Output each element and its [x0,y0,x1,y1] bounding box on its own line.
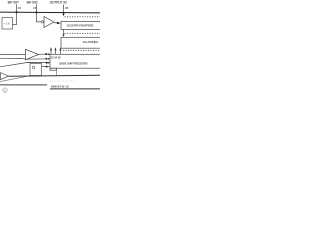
wire comparator output to SR [39,53,50,55]
node dot on inverter output [57,22,59,24]
shift register left notch [50,68,57,70]
svg-text:MM14543-13: MM14543-13 [51,85,69,89]
svg-text:33 34 35: 33 34 35 [51,55,62,59]
wire comparator input [0,54,26,56]
wire osc box to SR [42,66,50,68]
svg-text:33 LATCHES: 33 LATCHES [83,40,98,44]
arrow SR to latches 2 [55,50,57,54]
dashed ellipsis outputs row [65,16,101,18]
wire pin stub BP OUT [16,4,18,24]
svg-text:OUTPUT 33: OUTPUT 33 [50,1,67,5]
wire top bus [0,11,100,14]
node junction dot 2 [35,11,37,13]
faint dashed row bottom [50,80,75,82]
dashed ellipsis between buffers and latches [65,32,101,34]
box 33 latches [61,37,102,48]
wire clock to SR (diagonal) [0,63,50,67]
wire inverter output [54,22,61,25]
svg-text:21: 21 [33,6,37,10]
svg-text:÷16: ÷16 [3,22,10,26]
divider box ÷16 [2,18,13,30]
wire to divider box [12,24,17,26]
bottom rule right [50,88,100,90]
node junction dot 1 [15,11,17,13]
arrowhead into buffers row [62,14,64,16]
svg-text:BP. OUT: BP. OUT [8,1,19,5]
comparator triangle C [26,49,39,59]
box 33-bit shift register [50,54,102,68]
inverter U1 [44,17,54,28]
svg-text:BP. OSC: BP. OSC [27,1,39,5]
svg-text:33-BIT SHIFT REGISTER: 33-BIT SHIFT REGISTER [59,62,88,66]
arrow SR to latches 3 [60,50,62,54]
svg-text:28: 28 [65,6,69,10]
wire data buffer output (long) [9,74,100,77]
wire pin stub OSC [37,4,42,22]
box 33 output buffers [61,21,102,29]
bottom rule left [0,84,47,86]
arrow SR to latches 1 [50,50,52,54]
wire data-in to SR (long) [0,57,50,60]
oscillator symbol [32,66,35,69]
arrow buffers to latches [63,29,65,35]
wire pin stub OUTPUT 33 [63,5,65,15]
svg-text:33 OUTPUT BUFFERS: 33 OUTPUT BUFFERS [67,24,94,28]
node dot pin 28 on bus [63,12,65,14]
bottom-left circled mark [3,88,8,93]
svg-text:S: S [4,88,6,92]
data in buffer D [1,73,9,80]
dashed ellipsis between latches and shift register [63,49,100,51]
wire diagonal lower-left [0,76,27,81]
svg-text:18: 18 [18,6,22,10]
oscillator box [30,64,42,76]
inverter U1 bubble [42,21,44,23]
wire notch drop [56,70,58,75]
